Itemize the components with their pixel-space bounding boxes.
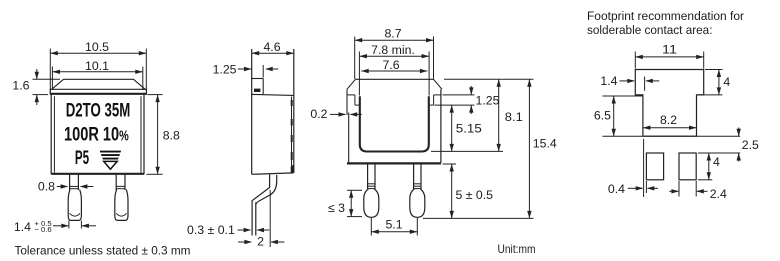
svg-text:5 ± 0.5: 5 ± 0.5 xyxy=(456,188,494,202)
view1 dim 10.1 extension lines xyxy=(51,67,53,91)
footprint dim 4 small extension lines xyxy=(698,152,712,154)
view3 top extension line xyxy=(444,78,534,80)
svg-text:8.2: 8.2 xyxy=(660,113,677,127)
view3 dim <=3 extension lines xyxy=(347,189,362,191)
view2 body top edge xyxy=(252,94,294,95)
view1 dim 1.6 xyxy=(33,78,61,80)
svg-text:1.4: 1.4 xyxy=(600,74,617,88)
view3 dim 7.8 extension lines xyxy=(358,52,360,96)
view3 left wing notch xyxy=(347,94,355,96)
svg-text:2: 2 xyxy=(257,234,264,248)
view2 dim 2 xyxy=(238,241,251,243)
view1 lead 2 crimp marks xyxy=(116,185,125,187)
svg-text:4: 4 xyxy=(713,155,720,169)
svg-text:1.4: 1.4 xyxy=(14,220,31,234)
view1 dim 8.8 extension lines xyxy=(148,94,163,96)
view1 body outline xyxy=(50,95,52,175)
view3 dim 7.8 min. xyxy=(359,55,429,57)
svg-text:Unit:mm: Unit:mm xyxy=(498,242,536,256)
view2 extension line for dim 2 xyxy=(269,190,271,247)
view1 tab chamfered top xyxy=(52,79,146,89)
view3 tab cavity xyxy=(360,96,429,151)
footprint dim 2.5 xyxy=(738,128,740,137)
svg-text:6.5: 6.5 xyxy=(594,109,611,123)
view3 lead 1 crimp marks xyxy=(367,183,375,185)
view2 tab back line dashes xyxy=(291,97,293,174)
view3 dim 1.25 extension lines xyxy=(443,94,475,96)
svg-text:8.8: 8.8 xyxy=(163,128,180,142)
view3 body bottom extension for dim 5 xyxy=(443,163,457,165)
view1 dim 1.4 extension lines xyxy=(68,221,70,229)
footprint dim 2.4 xyxy=(669,190,678,192)
svg-text:4.6: 4.6 xyxy=(263,40,280,54)
view1 lead 1 narrow part xyxy=(69,175,71,191)
view2 back edge xyxy=(293,49,295,173)
view1 logo triangle xyxy=(100,151,122,153)
svg-text:0.3 ± 0.1: 0.3 ± 0.1 xyxy=(187,223,235,237)
view3 right wing notch xyxy=(434,94,441,96)
svg-text:4: 4 xyxy=(723,75,730,89)
svg-text:0.4: 0.4 xyxy=(608,182,625,196)
view3 dim 5.1 extension lines xyxy=(370,218,372,236)
footprint dim 4 small xyxy=(708,153,710,180)
view2 tab plate xyxy=(252,78,264,80)
view2 dim 4.6 xyxy=(252,52,294,54)
svg-text:8.1: 8.1 xyxy=(505,110,523,124)
view3 dim 5 +/- 0.5 xyxy=(451,164,453,218)
footprint dim 2.4 extension lines xyxy=(678,181,680,197)
footprint main pad xyxy=(635,70,703,137)
footprint dim 0.4 xyxy=(628,187,643,189)
view3 dim 7.6 xyxy=(361,70,427,72)
svg-text:− 0.6: − 0.6 xyxy=(35,225,52,234)
svg-text:7.6: 7.6 xyxy=(382,58,399,72)
svg-text:Footprint recommendation for: Footprint recommendation for xyxy=(587,9,744,23)
view1 lead 2 bulb xyxy=(115,190,128,221)
svg-text:10.5: 10.5 xyxy=(85,40,109,54)
svg-text:0.8: 0.8 xyxy=(38,179,55,193)
footprint dim 4 top extension lines xyxy=(705,69,723,71)
view3 lead 2 crimp marks xyxy=(413,183,421,185)
footprint dim 11 extension lines xyxy=(634,52,636,69)
view2 lead lower segment xyxy=(251,200,253,236)
svg-text:11: 11 xyxy=(662,43,677,57)
view2 body bottom edge xyxy=(252,173,294,174)
view1 dim 0.8 xyxy=(57,186,68,188)
view1 tab band xyxy=(50,89,146,94)
footprint pad B xyxy=(679,153,696,180)
view3 bottom extension line xyxy=(423,217,534,219)
view1 lead 2 narrow part xyxy=(115,175,117,191)
svg-text:D2TO 35M: D2TO 35M xyxy=(66,99,131,121)
view1 dim 10.1 xyxy=(52,71,142,73)
svg-text:1.25: 1.25 xyxy=(476,94,500,108)
footprint pad A xyxy=(646,153,663,180)
footprint dim 6.5 xyxy=(613,96,615,136)
view2 dim 1.25 xyxy=(238,68,251,70)
svg-text:7.8 min.: 7.8 min. xyxy=(371,43,415,57)
svg-text:0.2: 0.2 xyxy=(310,107,327,121)
footprint dim 4 top xyxy=(718,70,720,95)
view1 dim 10.5 xyxy=(50,52,146,54)
view3 dim 0.2 xyxy=(330,113,346,115)
svg-text:8.7: 8.7 xyxy=(384,26,401,40)
svg-text:Tolerance unless stated ± 0.3: Tolerance unless stated ± 0.3 mm xyxy=(15,244,191,258)
view2 bottom right corner tick xyxy=(292,165,294,173)
view3 dim 1.25 xyxy=(470,86,472,95)
svg-text:P5: P5 xyxy=(75,147,89,169)
view3 cavity bottom extension line xyxy=(431,150,503,152)
view3 dim 8.7 xyxy=(355,39,434,41)
svg-text:100R 10%: 100R 10% xyxy=(64,123,129,145)
view3 dim 8.7 extension lines xyxy=(354,37,356,80)
view3 lead 1 bulb xyxy=(364,189,379,217)
view3 dim 8.1 xyxy=(498,79,500,151)
footprint dim 1.4 tick xyxy=(644,77,646,91)
svg-text:5.15: 5.15 xyxy=(456,122,482,136)
svg-text:1.6: 1.6 xyxy=(12,78,29,92)
footprint dim 1.4 xyxy=(620,80,635,82)
view1 body inner mold lines xyxy=(53,96,55,172)
svg-text:≤ 3: ≤ 3 xyxy=(328,201,345,215)
view1 dim 1.4 xyxy=(53,225,68,227)
view3 lead 2 narrow part xyxy=(413,163,415,189)
view3 lead 1 narrow part xyxy=(367,163,369,189)
svg-text:15.4: 15.4 xyxy=(533,136,557,150)
view3 outer outline xyxy=(356,78,434,80)
view3 dim 15.4 xyxy=(528,79,530,218)
view2 lead bend xyxy=(253,188,270,201)
footprint dim 6.5 extension lines xyxy=(602,95,643,97)
footprint dim 0.4 extension lines xyxy=(643,139,645,197)
view3 dim <=3 xyxy=(350,190,352,216)
footprint dim 11 xyxy=(635,56,703,58)
svg-text:10.1: 10.1 xyxy=(85,59,109,73)
view1 lead 1 crimp marks xyxy=(69,185,78,187)
view3 dim 5.1 xyxy=(371,231,417,233)
svg-text:5.1: 5.1 xyxy=(385,217,402,231)
view2 left edge and extension xyxy=(251,49,253,174)
view3 lead 2 bulb xyxy=(410,189,425,217)
footprint dim 2.5 extension line xyxy=(698,152,740,154)
footprint dim 8.2 xyxy=(643,127,697,129)
svg-text:1.25: 1.25 xyxy=(213,63,237,77)
svg-text:2.4: 2.4 xyxy=(710,187,727,201)
svg-text:2.5: 2.5 xyxy=(742,138,759,152)
svg-text:solderable contact area:: solderable contact area: xyxy=(587,23,713,37)
view1 dim 8.8 xyxy=(157,95,159,175)
view3 dim 5.15 xyxy=(451,105,453,151)
view2 lead upper segment xyxy=(269,175,271,188)
view1 lead 1 bulb xyxy=(68,190,81,221)
view2 tab hole mark xyxy=(254,89,260,92)
view1 dim 10.5 extension lines xyxy=(49,49,51,95)
view2 dim 0.3 xyxy=(238,229,251,231)
